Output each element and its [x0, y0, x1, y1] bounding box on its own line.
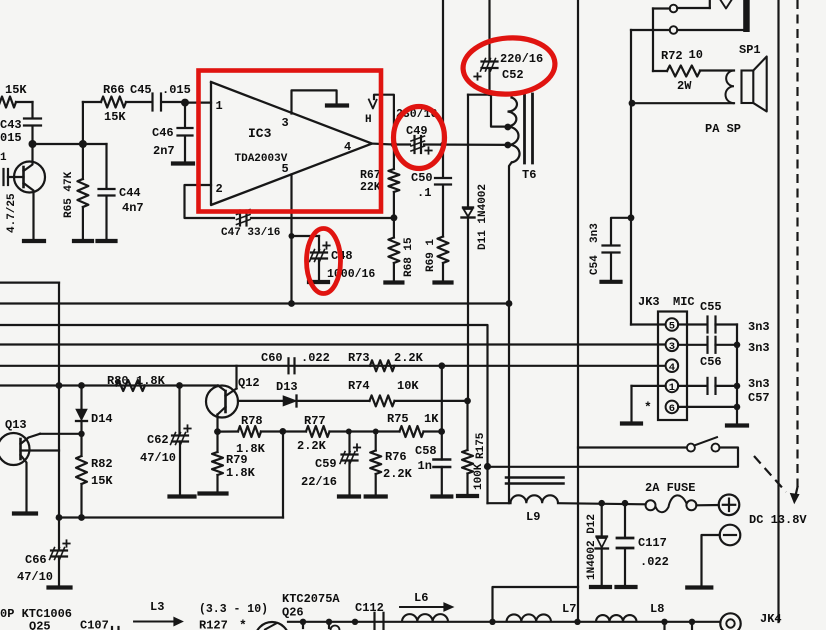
svg-text:C45: C45	[130, 83, 152, 97]
svg-text:3n3: 3n3	[589, 223, 601, 243]
plug arrow V	[721, 0, 732, 9]
wire contact-a right, up off image	[677, 7, 710, 9]
capacitor 4.7/25 (base, cut at edge)	[2, 169, 4, 185]
pin 5 wire down to bus	[290, 175, 292, 304]
svg-text:R82: R82	[91, 457, 113, 471]
resistor R79 1.8K	[216, 432, 218, 452]
resistor R76 2.2K	[375, 432, 377, 451]
svg-text:1.8K: 1.8K	[226, 466, 256, 480]
wire x631 vertical (PA line)	[630, 30, 632, 325]
svg-text:3n3: 3n3	[748, 341, 770, 355]
svg-text:R74: R74	[348, 379, 370, 393]
inductor L9 core bars	[506, 476, 564, 479]
node Q12 emitter/R79	[214, 428, 221, 435]
svg-text:47/10: 47/10	[17, 570, 53, 584]
svg-text:C117: C117	[638, 536, 667, 550]
node R73/C58 line	[438, 362, 445, 369]
svg-text:1: 1	[0, 152, 7, 164]
JK3 pin 5	[666, 318, 679, 331]
svg-text:4: 4	[669, 362, 675, 374]
svg-text:10: 10	[689, 48, 703, 62]
wire R78 line	[218, 430, 239, 432]
wire x59 vertical	[58, 283, 60, 518]
svg-text:R73: R73	[348, 351, 370, 365]
svg-text:.015: .015	[162, 83, 191, 97]
svg-text:2A FUSE: 2A FUSE	[645, 481, 695, 495]
plug bar	[743, 0, 750, 32]
switch S1 contact a	[670, 5, 678, 13]
capacitor C57 3n3	[706, 378, 708, 394]
svg-text:R175: R175	[475, 432, 487, 459]
wire pin4 to C49	[372, 143, 394, 146]
ground R68	[385, 280, 402, 284]
node T6 tap lower (pin4 net)	[504, 142, 511, 149]
node C117 top	[622, 500, 629, 507]
svg-text:C49: C49	[406, 124, 428, 138]
ground pin3	[327, 103, 347, 107]
svg-text:C52: C52	[502, 68, 524, 82]
red ellipse around C52	[461, 35, 557, 97]
wire speaker bottom to x631 node	[632, 102, 734, 104]
wire pin1 left to ground	[632, 385, 666, 387]
svg-text:22/16: 22/16	[301, 475, 337, 489]
resistor R66 15K	[83, 101, 101, 103]
svg-text:015: 015	[0, 131, 22, 145]
svg-text:2.2K: 2.2K	[394, 351, 424, 365]
wire x631 to JK3 pin5	[631, 323, 665, 325]
wire 15K to C43	[31, 102, 33, 117]
svg-text:R69 1: R69 1	[425, 239, 437, 272]
node D12 top	[598, 500, 605, 507]
svg-text:(3.3 - 10): (3.3 - 10)	[199, 603, 268, 616]
bus wire 3 (to JK3 pin3)	[0, 343, 665, 345]
wire pin1 to C57	[678, 385, 706, 387]
bus wire 4 (C60/R73 line to JK3 pin4)	[0, 365, 665, 367]
node C50 top	[440, 142, 446, 148]
transistor Q12	[206, 386, 238, 418]
wire D13/R74 line	[238, 400, 284, 402]
svg-text:5: 5	[282, 162, 289, 176]
resistor R78 1.8K	[238, 426, 261, 437]
svg-text:SP1: SP1	[739, 43, 761, 57]
diode D12 1N4002	[601, 503, 603, 535]
svg-text:15K: 15K	[104, 110, 126, 124]
svg-text:C60: C60	[261, 351, 283, 365]
ground C46	[173, 161, 193, 165]
svg-text:D13: D13	[276, 380, 298, 394]
transformer T6 primary coil	[510, 95, 512, 98]
capacitor C54 3n3	[611, 218, 631, 244]
resistor R175 100K	[466, 401, 468, 450]
wire node B to C44	[83, 143, 107, 145]
resistor 15K (input, cut at left edge)	[0, 97, 16, 108]
wire C52 tap to coil	[491, 95, 508, 127]
wire T6 bottom down to bus1	[509, 163, 512, 304]
wire node A to R65 node	[33, 143, 83, 145]
wire x578 branch to L6/L7 node	[493, 587, 579, 622]
capacitor C62 47/10	[178, 386, 180, 435]
ground C48	[309, 280, 328, 284]
ground R79	[200, 491, 227, 495]
svg-text:1n: 1n	[418, 459, 432, 473]
svg-text:4.7/25: 4.7/25	[6, 193, 18, 233]
svg-text:6: 6	[669, 403, 675, 415]
svg-text:15K: 15K	[5, 83, 27, 97]
node Q26 out	[300, 619, 306, 625]
svg-text:Q25: Q25	[29, 620, 51, 630]
speaker SP1 voice terminals	[700, 69, 734, 71]
capacitor C44 4n7	[105, 144, 107, 188]
diode D11 1N4002 vertical line	[467, 95, 469, 207]
wire contact-b left to x631	[631, 29, 670, 31]
capacitor C60 .022	[287, 358, 289, 373]
svg-text:5: 5	[669, 321, 675, 333]
ground Q11 emitter	[24, 239, 44, 243]
svg-text:220/16: 220/16	[500, 52, 543, 66]
node trimmer tap	[326, 619, 332, 625]
inductor L7	[507, 614, 551, 621]
svg-text:R127: R127	[199, 619, 228, 630]
svg-text:L7: L7	[562, 602, 576, 616]
red ellipse around C49	[394, 107, 445, 169]
bus wire 2	[0, 325, 488, 503]
resistor R65 47K	[82, 144, 84, 179]
wire stub top-left to x59	[0, 282, 59, 284]
node D14 top	[78, 382, 85, 389]
JK3 pin 4	[666, 359, 679, 372]
capacitor C47 33/16	[239, 211, 241, 226]
svg-text:C46: C46	[152, 126, 174, 140]
ground C117	[617, 585, 636, 589]
resistor R77 2.2K	[306, 426, 330, 437]
node R74/D11/R175	[464, 398, 471, 405]
ground cap column	[727, 423, 747, 427]
capacitor C55 3n3	[706, 317, 708, 333]
node x59/R80 line	[56, 382, 63, 389]
node speaker bottom	[629, 100, 636, 107]
transistor Q11	[14, 162, 45, 193]
svg-text:*: *	[239, 618, 247, 630]
svg-text:L9: L9	[526, 510, 540, 524]
svg-text:R80: R80	[107, 374, 129, 388]
svg-text:2.2K: 2.2K	[297, 439, 327, 453]
svg-text:L6: L6	[414, 591, 428, 605]
node D14/R82/Q13 collector	[78, 431, 84, 437]
svg-text:D11 1N4002: D11 1N4002	[477, 184, 489, 250]
pin 2 wire	[185, 185, 235, 218]
svg-text:KTC2075A: KTC2075A	[282, 592, 340, 606]
ground C54	[602, 280, 621, 284]
wire pin5 to C55	[678, 323, 706, 325]
svg-text:.022: .022	[640, 555, 669, 569]
svg-text:22K: 22K	[360, 181, 381, 194]
wire L9 to fuse	[558, 503, 646, 504]
node bus1/pin5	[288, 300, 295, 307]
resistor R80 1.8K	[116, 380, 145, 391]
ground R175	[458, 494, 477, 498]
svg-text:C66: C66	[25, 553, 47, 567]
svg-text:C43: C43	[0, 118, 22, 132]
wire node B up to R66	[82, 102, 84, 144]
ground C66	[49, 585, 71, 589]
svg-text:Q26: Q26	[282, 606, 304, 620]
svg-text:C47 33/16: C47 33/16	[221, 227, 280, 239]
svg-text:3n3: 3n3	[748, 377, 770, 391]
svg-text:C62: C62	[147, 433, 169, 447]
node C112 left	[352, 619, 358, 625]
ground C44	[98, 239, 116, 243]
svg-text:JK4: JK4	[760, 612, 782, 626]
capacitor C59 22/16	[348, 432, 350, 454]
wire R80 line	[0, 384, 218, 386]
svg-text:R76: R76	[385, 450, 407, 464]
svg-text:4: 4	[344, 140, 351, 154]
capacitor C52 220/16 line from top	[488, 0, 490, 60]
capacitor C117 .022	[624, 503, 626, 537]
wire pin6 right	[678, 406, 737, 408]
svg-text:PA SP: PA SP	[705, 122, 741, 136]
svg-text:R75: R75	[387, 412, 409, 426]
capacitor C43 .015	[24, 117, 41, 119]
svg-text:C56: C56	[700, 355, 722, 369]
svg-text:R79: R79	[226, 453, 248, 467]
ground Q13 emitter	[14, 511, 36, 515]
resistor R72 10 2W	[653, 70, 667, 72]
svg-text:4n7: 4n7	[122, 201, 144, 215]
svg-text:*: *	[644, 400, 652, 415]
resistor R67 22K	[393, 145, 395, 170]
node C54 tap	[628, 214, 635, 221]
svg-text:3: 3	[282, 116, 289, 130]
svg-text:2: 2	[216, 182, 223, 196]
svg-text:1.8K: 1.8K	[136, 374, 166, 388]
svg-text:R72: R72	[661, 49, 683, 63]
wire x578 supply line	[577, 0, 579, 622]
svg-text:TDA2003V: TDA2003V	[235, 153, 288, 165]
transistor Q26	[255, 622, 289, 630]
diode D13	[284, 396, 296, 405]
svg-text:JK3: JK3	[638, 295, 660, 309]
svg-text:C55: C55	[700, 300, 722, 314]
svg-text:C112: C112	[355, 601, 384, 615]
wire DC- to ground	[702, 535, 720, 585]
ground C62	[170, 494, 195, 498]
wire fuse to DC+	[696, 504, 718, 506]
node C57 right	[734, 383, 741, 390]
svg-text:C57: C57	[748, 391, 770, 405]
DC minus terminal	[720, 525, 741, 546]
svg-text:R77: R77	[304, 414, 326, 428]
svg-text:1: 1	[669, 382, 675, 394]
capacitor C45 .015	[151, 94, 153, 111]
node C56 right	[734, 342, 741, 349]
JK3 pin 1	[666, 380, 679, 393]
transformer T6 core	[523, 94, 526, 163]
svg-text:100K: 100K	[473, 463, 485, 490]
wire y517 up to R78/R77 node	[282, 431, 284, 517]
board edge dashed line	[796, 0, 798, 487]
svg-text:1N4002 D12: 1N4002 D12	[586, 514, 598, 580]
resistor R73 2.2K	[370, 360, 395, 371]
svg-text:.022: .022	[301, 351, 330, 365]
wire bus4 node down to C58	[441, 366, 443, 460]
svg-text:Q13: Q13	[5, 418, 27, 432]
wire contact-b right	[677, 29, 744, 31]
node C (C45/C46/pin1)	[181, 99, 189, 107]
svg-text:C59: C59	[315, 457, 337, 471]
svg-text:3n3: 3n3	[748, 320, 770, 334]
wire cap column down	[736, 325, 738, 425]
node L7/L8 (x578)	[574, 619, 580, 625]
svg-text:.1: .1	[417, 186, 431, 200]
dashed arrow tail	[754, 456, 786, 492]
DC plus terminal	[719, 495, 740, 516]
svg-text:MIC: MIC	[673, 295, 695, 309]
resistor R74 10K	[370, 395, 395, 406]
svg-text:47/10: 47/10	[140, 451, 176, 465]
svg-text:C58: C58	[415, 444, 437, 458]
wire contact-a left + down to R72	[653, 7, 670, 9]
node L8 out	[661, 619, 667, 625]
node R67 bottom	[390, 214, 397, 221]
node bus1/T6 line	[506, 300, 513, 307]
svg-text:R66: R66	[103, 83, 125, 97]
inductor L8	[596, 615, 637, 622]
transistor Q13	[0, 433, 30, 465]
inductor L9	[488, 502, 511, 504]
inductor L6	[402, 614, 448, 622]
svg-text:T6: T6	[522, 168, 536, 182]
pin 3 ground stub	[292, 90, 337, 113]
svg-text:C50: C50	[411, 171, 433, 185]
diode D14	[80, 386, 82, 410]
node R75/C58	[438, 428, 445, 435]
node A (C43/Q11 collector)	[29, 140, 37, 148]
node R82 bottom	[78, 514, 85, 521]
switch S2 lever	[694, 437, 717, 445]
resistor R69 1	[438, 237, 449, 264]
svg-text:L3: L3	[150, 600, 164, 614]
arrow L6	[400, 606, 444, 608]
ground pin1	[622, 421, 641, 425]
svg-text:2W: 2W	[677, 79, 692, 93]
wire pin3 to C56	[678, 344, 706, 346]
connector JK3 body	[658, 312, 687, 421]
JK3 pin 6	[666, 401, 679, 414]
resistor R82 15K	[80, 434, 82, 456]
svg-text:3: 3	[669, 341, 675, 353]
svg-text:15K: 15K	[91, 474, 113, 488]
JK3 pin 3	[666, 339, 679, 352]
wire T6 line to L9	[508, 304, 510, 504]
red ellipse around C48	[307, 229, 341, 294]
svg-text:R78: R78	[241, 414, 263, 428]
capacitor C56 3n3	[706, 337, 708, 353]
ground R69	[435, 280, 452, 284]
svg-text:2.2K: 2.2K	[383, 467, 413, 481]
resistor R75 1K	[349, 430, 400, 432]
capacitor C49 230/16	[413, 136, 415, 153]
capacitor C58 1n	[434, 458, 451, 461]
node pin4/R67	[391, 141, 397, 147]
bus wire 1	[0, 302, 509, 304]
wire switch S2 return	[488, 448, 739, 467]
bootstrap stub with arrow at pin4 net	[374, 95, 394, 145]
board edge solid line	[777, 0, 779, 622]
node C59 top	[346, 429, 352, 435]
node R78/R77/feedback	[279, 428, 286, 435]
wire C47 to R67 node	[251, 217, 394, 219]
node R76 top	[373, 429, 379, 435]
svg-text:L8: L8	[650, 602, 664, 616]
wire to switch S2 from x578	[578, 446, 687, 448]
svg-text:1: 1	[216, 99, 223, 113]
ground R76	[366, 494, 386, 498]
svg-text:1000/16: 1000/16	[327, 268, 375, 281]
svg-text:C54: C54	[589, 255, 601, 275]
wire T6 top header	[468, 94, 512, 96]
wire feedback line y517	[59, 516, 283, 518]
fuse 2A FUSE	[646, 500, 656, 510]
capacitor C48 1000/16	[292, 235, 320, 237]
wire bottom rail	[288, 621, 720, 623]
svg-text:DC 13.8V: DC 13.8V	[749, 513, 807, 527]
svg-text:C44: C44	[119, 186, 141, 200]
node pin6 column	[734, 404, 741, 411]
svg-text:2n7: 2n7	[153, 144, 175, 158]
dashed arrow head	[795, 487, 797, 497]
capacitor C66 47/10	[58, 518, 60, 550]
capacitor C46 2n7	[184, 103, 186, 127]
svg-text:R68 15: R68 15	[403, 237, 415, 277]
ground D12	[591, 585, 610, 589]
red box around IC3	[199, 71, 382, 212]
ground R65	[74, 239, 92, 243]
node D (pin5/C48 tap)	[289, 233, 295, 239]
svg-text:IC3: IC3	[248, 126, 272, 141]
node x59/C66	[56, 514, 63, 521]
switch S2 contact a	[687, 444, 695, 452]
speaker SP1 driver	[742, 71, 754, 104]
node switch return / bus2 descender	[484, 463, 491, 470]
node T6 tap upper	[504, 124, 511, 131]
svg-text:R65 47K: R65 47K	[63, 171, 75, 218]
svg-text:H: H	[365, 114, 372, 126]
connector JK4	[720, 613, 740, 630]
svg-text:1K: 1K	[424, 412, 439, 426]
svg-text:10K: 10K	[397, 379, 419, 393]
capacitor C112	[373, 613, 375, 630]
ground C58	[432, 494, 451, 498]
svg-text:C107: C107	[80, 619, 109, 630]
resistor R68 15	[393, 218, 395, 238]
node JK4 feed	[689, 619, 695, 625]
switch S1 contact b	[670, 26, 678, 34]
wire node C to IC3 pin 1	[185, 101, 211, 103]
svg-text:D14: D14	[91, 412, 113, 426]
svg-text:Q12: Q12	[238, 376, 260, 390]
ground C59	[339, 494, 359, 498]
node R80/Q12 base/C62	[176, 382, 183, 389]
switch S2 contact b	[712, 444, 720, 452]
node B (R65 top / R66 left)	[79, 140, 87, 148]
capacitor C50 .1 line from top edge	[442, 0, 444, 145]
ground DC-	[687, 585, 711, 589]
node L6/x492	[489, 619, 495, 625]
op-amp IC3 TDA2003V triangle	[211, 82, 372, 205]
